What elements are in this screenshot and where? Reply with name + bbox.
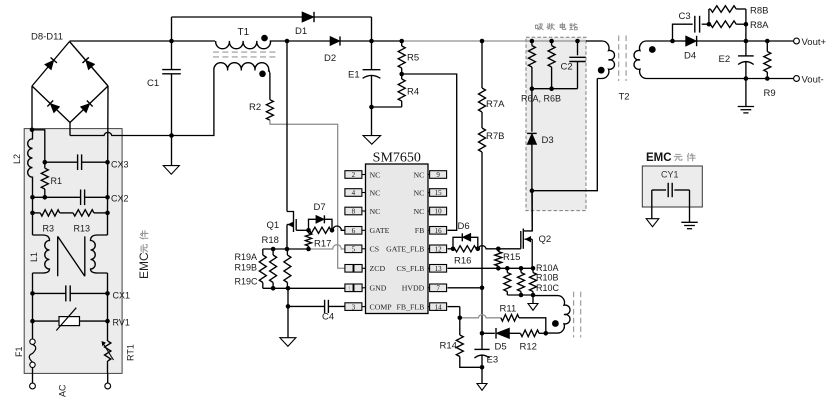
svg-text:D6: D6 (458, 221, 470, 232)
svg-text:F1: F1 (14, 346, 24, 357)
svg-text:R8B: R8B (750, 6, 768, 17)
svg-text:R9: R9 (764, 88, 776, 99)
svg-text:C4: C4 (322, 312, 334, 323)
svg-text:R10A: R10A (536, 263, 559, 273)
svg-text:R17: R17 (314, 239, 331, 250)
svg-text:C1: C1 (147, 78, 159, 89)
svg-text:10: 10 (435, 208, 443, 216)
svg-text:L2: L2 (12, 154, 22, 164)
svg-text:R2: R2 (249, 102, 261, 113)
svg-text:15: 15 (435, 189, 443, 197)
svg-text:D3: D3 (542, 135, 554, 146)
svg-text:1: 1 (348, 285, 351, 292)
svg-text:C2: C2 (561, 62, 573, 73)
svg-text:5: 5 (352, 246, 356, 254)
svg-text:6: 6 (352, 227, 356, 235)
svg-text:RV1: RV1 (113, 318, 130, 328)
svg-text:NC: NC (370, 207, 381, 216)
svg-text:E1: E1 (348, 70, 360, 81)
svg-text:16: 16 (435, 227, 443, 235)
svg-text:GND: GND (370, 284, 387, 293)
svg-text:R7A: R7A (486, 99, 505, 110)
svg-text:D7: D7 (314, 202, 326, 213)
svg-text:R10B: R10B (536, 273, 559, 283)
svg-text:FB_FLB: FB_FLB (397, 302, 425, 311)
svg-text:CX3: CX3 (111, 160, 129, 170)
svg-text:8: 8 (352, 208, 356, 216)
svg-text:AC: AC (58, 384, 68, 397)
svg-text:14: 14 (435, 303, 443, 311)
svg-text:3: 3 (352, 303, 356, 311)
svg-text:D5: D5 (495, 342, 507, 353)
svg-text:EMC: EMC (137, 252, 151, 279)
svg-text:CX1: CX1 (113, 291, 131, 301)
svg-text:E2: E2 (719, 54, 731, 65)
svg-text:HVDD: HVDD (402, 284, 425, 293)
svg-text:EMC: EMC (646, 152, 672, 164)
svg-text:R12: R12 (520, 342, 537, 353)
svg-text:13: 13 (435, 265, 443, 273)
svg-text:COMP: COMP (370, 302, 393, 311)
svg-text:4: 4 (352, 189, 356, 197)
svg-text:C3: C3 (679, 11, 691, 22)
svg-text:GATE_FLB: GATE_FLB (386, 245, 424, 254)
svg-text:R4: R4 (407, 87, 419, 98)
svg-text:R19C: R19C (235, 277, 259, 287)
svg-text:CS: CS (370, 245, 380, 254)
svg-text:R18: R18 (262, 235, 279, 246)
svg-text:12: 12 (435, 246, 443, 254)
svg-text:Vout+: Vout+ (802, 37, 827, 48)
svg-text:2: 2 (352, 171, 356, 179)
svg-text:NC: NC (413, 207, 424, 216)
svg-text:T1: T1 (238, 27, 250, 38)
svg-text:FB: FB (415, 226, 425, 235)
svg-text:R6A, R6B: R6A, R6B (521, 94, 561, 104)
svg-text:CY1: CY1 (661, 170, 679, 180)
svg-text:ZCD: ZCD (370, 264, 386, 273)
svg-text:T2: T2 (619, 92, 630, 103)
svg-text:R19A: R19A (235, 252, 258, 262)
svg-text:R10C: R10C (536, 283, 560, 293)
svg-text:NC: NC (370, 188, 381, 197)
svg-text:R7B: R7B (486, 131, 504, 142)
svg-text:L1: L1 (29, 252, 39, 262)
svg-text:CS_FLB: CS_FLB (397, 264, 425, 273)
svg-text:R14: R14 (440, 341, 457, 352)
svg-text:R11: R11 (500, 304, 517, 315)
svg-text:Q2: Q2 (539, 234, 552, 245)
svg-text:E3: E3 (487, 355, 499, 366)
svg-text:Vout-: Vout- (802, 75, 824, 86)
svg-text:D2: D2 (324, 53, 336, 64)
svg-text:NC: NC (413, 170, 424, 179)
svg-text:D8-D11: D8-D11 (31, 32, 63, 43)
svg-text:R16: R16 (454, 256, 471, 267)
svg-text:Q1: Q1 (267, 220, 280, 231)
svg-text:GATE: GATE (370, 226, 390, 235)
svg-text:NC: NC (413, 188, 424, 197)
svg-text:SM7650: SM7650 (373, 151, 421, 166)
svg-text:R13: R13 (74, 224, 91, 234)
svg-text:D1: D1 (295, 26, 307, 37)
svg-text:NC: NC (370, 170, 381, 179)
svg-text:R5: R5 (407, 53, 419, 64)
svg-text:7: 7 (436, 285, 440, 293)
svg-text:9: 9 (436, 171, 440, 179)
svg-text:RT1: RT1 (126, 344, 136, 361)
svg-text:CX2: CX2 (111, 194, 129, 204)
svg-text:R3: R3 (43, 224, 55, 234)
svg-text:R8A: R8A (750, 20, 769, 31)
svg-text:D4: D4 (684, 51, 696, 62)
svg-text:R19B: R19B (235, 263, 258, 273)
svg-text:R1: R1 (51, 176, 63, 186)
svg-text:R15: R15 (503, 252, 520, 263)
